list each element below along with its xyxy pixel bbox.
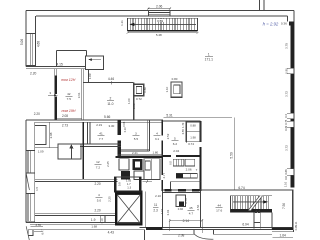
wall: bottom-left double (26, 222, 139, 224)
porch bottom line (162, 233, 194, 235)
svg-text:45: 45 (189, 206, 193, 210)
svg-text:1.00: 1.00 (127, 98, 131, 104)
elevator top dark bar (114, 191, 143, 193)
svg-text:0.92: 0.92 (178, 207, 184, 211)
bottom line y229.6 (33, 229, 145, 231)
wall: left inner upper (35, 16, 37, 66)
dim extension lines (169, 219, 171, 231)
svg-text:5.31: 5.31 (166, 113, 173, 117)
wc row2 (176, 174, 197, 179)
svg-text:0.72: 0.72 (136, 97, 142, 101)
wall: mid dark band (118, 154, 163, 156)
closet rects right (186, 122, 201, 132)
svg-text:41: 41 (99, 132, 103, 136)
stair lower: break diagonals (248, 196, 263, 211)
stair lower: bold band (230, 209, 272, 212)
svg-text:3: 3 (135, 132, 137, 136)
svg-text:2.77: 2.77 (162, 172, 166, 178)
svg-text:1.68: 1.68 (91, 225, 97, 229)
elevator X (117, 195, 140, 223)
svg-text:2.06: 2.06 (186, 168, 192, 172)
svg-text:3.61: 3.61 (77, 92, 81, 98)
dim 3.59 on stair (156, 19, 164, 22)
crack line below band1 (26, 174, 29, 191)
elevator vestibule (114, 176, 141, 178)
svg-text:2.3: 2.3 (153, 209, 158, 213)
svg-text:171.1: 171.1 (205, 58, 213, 62)
wall: bottom double right part (139, 226, 293, 228)
svg-text:1.98: 1.98 (190, 135, 196, 139)
svg-text:1.64: 1.64 (280, 234, 287, 238)
svg-text:2.08: 2.08 (62, 114, 68, 118)
svg-text:пом 12Н: пом 12Н (61, 78, 75, 82)
wall: lower-left top double (26, 119, 163, 121)
svg-text:1: 1 (208, 52, 210, 56)
window: upper-left wall (29, 34, 31, 66)
svg-text:0.55: 0.55 (181, 129, 185, 135)
svg-text:6.74: 6.74 (238, 186, 245, 190)
wall: left inner lower (34, 122, 36, 222)
svg-text:0.80: 0.80 (172, 77, 178, 81)
svg-text:0.96: 0.96 (122, 121, 126, 127)
bottom-left crack line (26, 226, 29, 240)
entrance box (85, 56, 103, 69)
svg-text:2.04: 2.04 (173, 149, 179, 153)
wall: block right x200 dark (200, 121, 202, 191)
wc box row1a (173, 159, 184, 166)
svg-text:0.4: 0.4 (284, 114, 288, 118)
window: lower-left band2 (27, 193, 29, 221)
porch door jambs (193, 230, 195, 235)
wall: thick dark left of pom12N (54, 69, 56, 76)
wall: left outer upper (25, 11, 27, 67)
svg-text:2.56: 2.56 (196, 204, 200, 210)
wall: bottom-right step (272, 227, 294, 229)
svg-text:1.10: 1.10 (100, 218, 104, 224)
line below elevator right (144, 230, 146, 240)
elevator shaft inner (117, 195, 140, 223)
stair lower: treads (232, 196, 268, 210)
svg-text:7.56: 7.56 (282, 203, 286, 209)
wall: room4 bottom double (35, 212, 115, 214)
svg-text:2.14: 2.14 (183, 219, 190, 223)
dim 5.59 line (233, 118, 235, 190)
svg-text:0.9: 0.9 (117, 182, 121, 186)
svg-text:0.90: 0.90 (285, 68, 289, 74)
svg-text:7: 7 (196, 168, 198, 172)
svg-text:1.89: 1.89 (88, 73, 92, 79)
svg-text:2.20: 2.20 (95, 182, 101, 186)
svg-text:4: 4 (156, 132, 158, 136)
wall: link below entrance (88, 70, 90, 83)
stair upper: mid line with up-arrow (129, 23, 196, 26)
svg-text:0.75: 0.75 (284, 119, 288, 125)
wall: right lower vertical (292, 190, 294, 228)
wall: corridor long (162, 189, 293, 191)
svg-text:0.88: 0.88 (190, 124, 196, 128)
stair upper: outline (128, 18, 198, 30)
wall: right outer (293, 11, 295, 188)
svg-text:2.52: 2.52 (166, 133, 170, 139)
porch door arc (194, 234, 214, 240)
wall: top outer (26, 10, 294, 12)
svg-text:1.01: 1.01 (160, 208, 164, 214)
svg-text:1.80: 1.80 (152, 150, 158, 154)
svg-text:6.2: 6.2 (173, 142, 178, 146)
svg-text:4.68: 4.68 (36, 41, 40, 47)
svg-text:2.06: 2.06 (156, 5, 163, 9)
svg-text:42: 42 (67, 92, 71, 96)
corridor room11 wall (145, 192, 147, 228)
svg-text:3.30: 3.30 (109, 124, 115, 128)
svg-text:7.7: 7.7 (99, 137, 104, 141)
svg-text:11: 11 (154, 203, 158, 207)
svg-text:6.94: 6.94 (242, 222, 249, 226)
svg-text:5.59: 5.59 (230, 152, 234, 159)
shaft b4 (134, 171, 144, 180)
vestibule dim line right (142, 181, 152, 183)
wall y147.8 (35, 147, 58, 149)
svg-text:4.7: 4.7 (189, 211, 194, 215)
wall: dark bottom seg corridor (146, 227, 163, 230)
wall: left outer lower (25, 120, 27, 223)
wall: room41 right thick (118, 120, 121, 158)
stair upper: treads (130, 18, 194, 30)
svg-text:пом 19Н: пом 19Н (61, 109, 75, 113)
wall: room5 inner vertical (185, 122, 187, 143)
entrance arrow (89, 59, 101, 61)
column B (171, 82, 182, 97)
svg-text:0.8: 0.8 (169, 161, 173, 165)
wall: corridor dark segs (165, 189, 172, 191)
svg-text:1.98: 1.98 (132, 103, 136, 109)
svg-text:0.8: 0.8 (284, 176, 288, 180)
svg-text:2.21: 2.21 (132, 151, 138, 155)
svg-text:44: 44 (217, 203, 221, 207)
svg-text:11.0: 11.0 (107, 102, 113, 106)
stair lower: outline (230, 195, 272, 197)
svg-text:2: 2 (109, 97, 111, 101)
svg-text:2.20: 2.20 (95, 208, 101, 212)
elevator shaft outer (116, 193, 142, 224)
vestibule box room1 (56, 49, 86, 51)
wc box row1b (185, 159, 194, 166)
stair upper: top landing treads (148, 11, 170, 17)
wall: room2 top (83, 82, 133, 84)
svg-text:7.2: 7.2 (96, 166, 101, 170)
svg-text:3.59: 3.59 (157, 19, 163, 23)
svg-text:3.1: 3.1 (155, 137, 160, 141)
svg-text:2.10: 2.10 (155, 194, 161, 198)
stair lower: right line (271, 212, 273, 228)
wall: room12 bottom double (35, 178, 118, 180)
svg-text:1.09: 1.09 (38, 150, 44, 154)
dim 5.48 below stair (128, 32, 198, 34)
arrow box (58, 144, 81, 159)
wall: block left x162 thick (161, 120, 163, 191)
svg-text:4.15: 4.15 (56, 62, 63, 66)
svg-text:2.25: 2.25 (106, 161, 110, 167)
wall: room45 left (161, 191, 163, 227)
svg-text:0.25: 0.25 (295, 225, 298, 230)
wall: room1 bottom-left double (26, 65, 85, 67)
svg-text:5.66: 5.66 (104, 115, 111, 119)
shaft b3 dark w/ core (133, 159, 143, 170)
svg-text:1.10: 1.10 (165, 86, 169, 92)
wall: room3 bottom double (121, 148, 150, 150)
svg-text:17.6: 17.6 (216, 209, 222, 213)
svg-text:2.25: 2.25 (108, 196, 112, 202)
shaft b1 (119, 159, 129, 170)
partition line x49 (48, 122, 50, 148)
wall: block top (162, 120, 200, 122)
svg-text:3.75: 3.75 (285, 43, 289, 49)
svg-text:3: 3 (49, 91, 51, 95)
wall: x83.4 dark (83, 122, 85, 179)
svg-text:2.08: 2.08 (178, 233, 185, 237)
shaft b5 (144, 159, 160, 180)
wall: pom12N right double (81, 69, 83, 120)
svg-text:0.70: 0.70 (184, 198, 188, 204)
closet rect (35, 125, 46, 144)
svg-text:2.20: 2.20 (30, 72, 37, 76)
svg-text:5.0: 5.0 (97, 199, 102, 203)
wall: right thick with door gaps (291, 26, 294, 69)
bottom-left box (28, 230, 33, 236)
svg-text:5.06: 5.06 (20, 39, 24, 45)
svg-text:1.7: 1.7 (127, 182, 131, 186)
svg-text:1.10: 1.10 (283, 181, 287, 187)
svg-text:1.05: 1.05 (126, 178, 132, 182)
svg-text:5.5: 5.5 (134, 137, 139, 141)
window: lower-left band1 (27, 150, 29, 173)
dim 1.64 (273, 237, 294, 239)
svg-text:0.10: 0.10 (123, 127, 127, 133)
svg-text:3.03: 3.03 (166, 209, 170, 215)
svg-text:0.80: 0.80 (143, 87, 147, 93)
wall: right inner top step (287, 16, 289, 22)
wall: room45 right (200, 191, 202, 227)
svg-text:5.48: 5.48 (156, 33, 162, 37)
svg-text:1.3: 1.3 (127, 186, 131, 190)
svg-text:4.46: 4.46 (108, 77, 115, 81)
wall: room41 left double (87, 122, 89, 144)
svg-text:0.74: 0.74 (188, 142, 194, 146)
svg-text:4.43: 4.43 (108, 230, 115, 234)
wall: top inner (36, 15, 288, 17)
shaft b2 dark (121, 171, 130, 180)
svg-text:1.9: 1.9 (91, 218, 96, 222)
svg-text:2.08: 2.08 (49, 132, 53, 138)
svg-text:0.14: 0.14 (295, 221, 298, 226)
svg-text:3.72: 3.72 (285, 145, 289, 151)
svg-text:0.36: 0.36 (281, 22, 287, 26)
wall: block mid band2 (162, 155, 200, 157)
column A (134, 84, 144, 96)
svg-text:5: 5 (174, 137, 176, 141)
wall: room3 right double (147, 120, 149, 151)
svg-text:12: 12 (96, 160, 100, 164)
stair upper: bottom bold edge (128, 30, 198, 32)
wall stub above top wall (258, 0, 260, 11)
stair lower: down-flight shaft (253, 212, 255, 228)
stair lower: arrow (233, 200, 268, 203)
svg-text:0.39: 0.39 (284, 125, 288, 131)
wall: room2 right (133, 83, 135, 120)
svg-text:2.73: 2.73 (62, 123, 68, 127)
svg-text:3.72: 3.72 (285, 91, 289, 97)
wc box room45 (176, 195, 185, 207)
svg-text:h = 2.92: h = 2.92 (263, 22, 279, 27)
dim 5.31 line (164, 117, 232, 119)
wardrobe rect above corridor wall (170, 181, 200, 183)
svg-text:2.19: 2.19 (96, 123, 102, 127)
dim 2.08 pom19N (57, 117, 82, 119)
svg-text:1.70: 1.70 (181, 122, 185, 128)
svg-text:4: 4 (98, 193, 100, 197)
svg-text:1.5: 1.5 (35, 187, 39, 191)
room 1.9 divider (100, 215, 102, 222)
svg-text:1.11: 1.11 (120, 20, 124, 26)
wall: room41 bottom double (80, 143, 121, 145)
svg-text:0.86: 0.86 (284, 169, 288, 175)
svg-text:2.20: 2.20 (34, 112, 40, 116)
dim 2.06 with ticks (148, 8, 170, 10)
svg-text:7.5: 7.5 (67, 97, 72, 101)
